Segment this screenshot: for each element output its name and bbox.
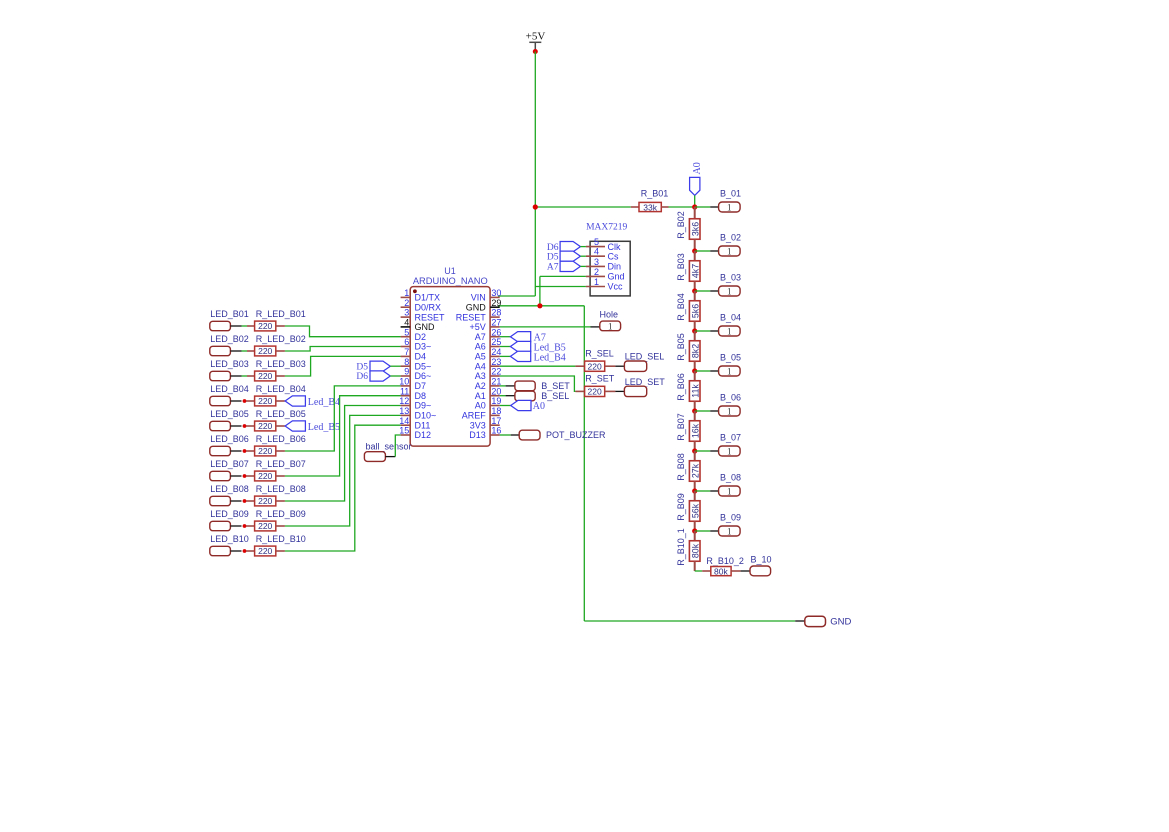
connector LED_B10 — [210, 546, 231, 555]
lead left R_LED_B06 — [246, 450, 255, 452]
svg-text:27k: 27k — [690, 463, 700, 478]
svg-text:13: 13 — [399, 406, 409, 416]
svg-text:R_B06: R_B06 — [676, 373, 686, 401]
svg-text:LED_B10: LED_B10 — [210, 534, 249, 544]
svg-text:D13: D13 — [469, 430, 486, 440]
pin 16 D13 of U1 — [469, 426, 501, 441]
svg-text:LED_B02: LED_B02 — [210, 334, 249, 344]
resistor R_LED_B10 220 — [255, 546, 276, 556]
pin 15 D12 of U1 — [399, 426, 431, 441]
pin 21 A2 of U1 — [475, 377, 502, 392]
lead bottom R_B10_1 — [694, 561, 696, 571]
wire LED_B07 to pin 11 — [285, 396, 401, 476]
svg-text:220: 220 — [258, 446, 272, 456]
lead left R_LED_B08 — [246, 500, 255, 502]
pin stub LED_B09 — [230, 525, 241, 527]
svg-text:R_SEL: R_SEL — [585, 349, 614, 359]
svg-text:220: 220 — [588, 387, 602, 397]
net label D5 flag (chip side) — [370, 361, 390, 371]
pin stub B_SEL — [506, 395, 515, 397]
svg-text:R_LED_B03: R_LED_B03 — [256, 359, 306, 369]
wire +5V to MAX Vcc — [535, 286, 586, 288]
resistor R_B08 27k — [689, 461, 700, 482]
wire LED_B02 to R_LED_B02 — [242, 350, 248, 352]
svg-text:Vcc: Vcc — [608, 282, 624, 292]
lead right R_LED_B10 — [276, 550, 285, 552]
pin 3 Din of MAX7219 — [586, 257, 621, 272]
svg-text:RESET: RESET — [415, 312, 446, 322]
svg-text:220: 220 — [258, 371, 272, 381]
svg-text:B_07: B_07 — [720, 432, 741, 442]
svg-text:1: 1 — [727, 487, 732, 497]
svg-text:B_05: B_05 — [720, 352, 741, 362]
wire pin to Led_B4 flag — [500, 355, 511, 357]
lead left R_LED_B10 — [246, 550, 255, 552]
pin 22 A3 of U1 — [475, 367, 502, 382]
svg-text:D2: D2 — [415, 332, 427, 342]
net label A7 (to MAX7219) — [560, 261, 580, 271]
svg-text:D9~: D9~ — [415, 401, 432, 411]
svg-text:4: 4 — [404, 318, 409, 328]
pin 8 D5~ of U1 — [401, 357, 432, 372]
svg-text:D0/RX: D0/RX — [415, 302, 442, 312]
svg-text:A6: A6 — [475, 342, 486, 352]
lead top R_B10_1 — [694, 531, 696, 541]
wire node to B_08 — [695, 490, 711, 492]
resistor R_B06 11k — [689, 381, 700, 402]
connector LED_SEL — [624, 361, 646, 371]
svg-text:220: 220 — [588, 361, 602, 371]
svg-text:1: 1 — [727, 407, 732, 417]
lead right R_SET — [605, 390, 616, 392]
connector B_08 — [719, 486, 741, 497]
svg-text:B_SEL: B_SEL — [541, 391, 569, 401]
svg-text:R_B04: R_B04 — [676, 293, 686, 321]
pin 4 Cs of MAX7219 — [586, 247, 619, 262]
resistor R_LED_B06 220 — [255, 446, 276, 456]
svg-text:D5~: D5~ — [415, 361, 432, 371]
svg-text:3k6: 3k6 — [690, 222, 700, 236]
lead left R_LED_B09 — [246, 525, 255, 527]
svg-text:24: 24 — [491, 347, 501, 357]
svg-text:R_LED_B09: R_LED_B09 — [256, 509, 306, 519]
svg-text:A4: A4 — [475, 361, 486, 371]
junction row LED_B08 — [243, 499, 247, 503]
svg-text:14: 14 — [399, 416, 409, 426]
wire node to B_04 — [695, 330, 711, 332]
wire D6 flag to pin 9 — [390, 375, 400, 377]
pin stub B_02 — [710, 250, 718, 252]
svg-text:220: 220 — [258, 346, 272, 356]
net label Led_B4 flag (right) — [510, 351, 530, 361]
net label A0 flag (right) — [511, 400, 531, 410]
pin stub LED_B05 — [230, 425, 241, 427]
wire LED_B06 to pin 10 — [285, 386, 401, 451]
svg-text:19: 19 — [491, 396, 501, 406]
svg-text:15: 15 — [399, 426, 409, 436]
svg-text:MAX7219: MAX7219 — [586, 223, 627, 233]
junction node B08 — [692, 488, 697, 493]
pin 17 3V3 of U1 — [470, 416, 502, 431]
lead top R_B04 — [694, 291, 696, 301]
pin 2 D0/RX of U1 — [401, 298, 441, 313]
svg-text:LED_SEL: LED_SEL — [625, 352, 665, 362]
lead right R_B10_2 — [731, 570, 741, 572]
pin 10 D7 of U1 — [399, 377, 426, 392]
pin 23 A4 of U1 — [475, 357, 502, 372]
wire node to B_07 — [695, 450, 711, 452]
svg-text:D1/TX: D1/TX — [415, 293, 441, 303]
svg-text:1: 1 — [727, 367, 732, 377]
resistor R_LED_B02 220 — [255, 346, 276, 356]
connector LED_SET — [624, 386, 646, 396]
svg-text:VIN: VIN — [471, 293, 486, 303]
connector B_06 — [719, 406, 741, 417]
pin stub LED_B03 — [230, 375, 241, 377]
lead left R_B10_2 — [702, 570, 711, 572]
svg-text:R_LED_B10: R_LED_B10 — [256, 534, 306, 544]
svg-text:R_B08: R_B08 — [676, 453, 686, 481]
wire GND vertical — [583, 306, 585, 621]
svg-text:R_LED_B08: R_LED_B08 — [256, 484, 306, 494]
connector GND — [805, 616, 826, 626]
svg-text:5: 5 — [594, 237, 599, 247]
lead top R_B03 — [694, 251, 696, 261]
resistor R_LED_B01 220 — [255, 321, 276, 331]
wire A0 flag to node B01 — [694, 195, 696, 207]
resistor R_LED_B09 220 — [255, 521, 276, 531]
wire ball_sensor to pin 15 — [395, 435, 400, 457]
lead left R_LED_B03 — [247, 375, 255, 377]
pin stub B_04 — [710, 330, 718, 332]
pin 1 D1/TX of U1 — [401, 288, 440, 303]
resistor R_B02 3k6 — [689, 219, 700, 240]
pin stub LED_B06 — [230, 450, 241, 452]
pin stub LED_B04 — [230, 400, 241, 402]
lead right R_LED_B09 — [276, 525, 285, 527]
pin 4 GND of U1 — [401, 318, 435, 333]
svg-text:18: 18 — [491, 406, 501, 416]
svg-text:5: 5 — [404, 327, 409, 337]
lead bottom R_B09 — [694, 521, 696, 531]
lead right R_LED_B07 — [276, 475, 285, 477]
lead top R_B06 — [694, 371, 696, 381]
wire GND to MAX Gnd pin — [540, 275, 586, 277]
svg-text:28: 28 — [491, 308, 501, 318]
wire LED_B01 to pin 5 — [285, 326, 401, 337]
svg-text:8: 8 — [404, 357, 409, 367]
wire +5V to VIN — [498, 295, 535, 297]
svg-text:1: 1 — [727, 527, 732, 537]
svg-text:220: 220 — [258, 396, 272, 406]
junction node B04 — [692, 328, 697, 333]
connector POT_BUZZER — [519, 430, 540, 440]
junction row LED_B07 — [243, 474, 247, 478]
lead bottom R_B08 — [694, 481, 696, 491]
connector LED_B07 — [210, 471, 231, 480]
pin 11 D8 of U1 — [400, 386, 426, 401]
lead right R_LED_B01 — [276, 325, 285, 327]
resistor R_B03 4k7 — [689, 261, 700, 282]
connector LED_B06 — [210, 446, 231, 455]
svg-text:A0: A0 — [533, 401, 545, 412]
junction node B06 — [692, 408, 697, 413]
lead right R_LED_B04 — [276, 400, 285, 402]
svg-text:D3~: D3~ — [415, 342, 432, 352]
svg-text:LED_B08: LED_B08 — [210, 484, 249, 494]
pin stub GND — [795, 620, 805, 622]
svg-text:1: 1 — [727, 287, 732, 297]
svg-text:16: 16 — [491, 426, 501, 436]
svg-text:LED_B09: LED_B09 — [210, 509, 249, 519]
wire +5V vertical — [534, 52, 536, 297]
resistor R_SEL 220 — [585, 361, 605, 371]
junction node B09 — [692, 528, 697, 533]
junction at +5V — [533, 49, 538, 54]
svg-text:1: 1 — [727, 327, 732, 337]
pin stub ball_sensor — [385, 456, 395, 458]
resistor R_B07 16k — [689, 421, 700, 442]
svg-text:LED_B05: LED_B05 — [210, 409, 249, 419]
lead top R_B02 — [694, 207, 696, 219]
lead top R_B05 — [694, 331, 696, 341]
svg-text:R_B10_2: R_B10_2 — [706, 556, 744, 566]
svg-text:D10~: D10~ — [415, 411, 437, 421]
pin stub B_03 — [710, 290, 718, 292]
connector B_05 — [719, 366, 741, 377]
svg-text:Led_B4: Led_B4 — [534, 352, 566, 363]
svg-text:R_B09: R_B09 — [676, 493, 686, 521]
svg-text:Led_B5: Led_B5 — [308, 422, 340, 433]
svg-text:220: 220 — [258, 421, 272, 431]
pin stub POT_BUZZER — [511, 434, 520, 436]
wire node to B_01 — [695, 206, 711, 208]
wire node to B_09 — [695, 530, 711, 532]
wire LED_B03 to pin 7 — [285, 356, 401, 376]
pin 1 Vcc of MAX7219 — [586, 277, 623, 292]
svg-text:23: 23 — [491, 357, 501, 367]
wire LED_B09 to pin 13 — [285, 415, 401, 526]
pin 12 D9~ of U1 — [399, 396, 431, 411]
junction row LED_B04 — [243, 399, 247, 403]
svg-text:LED_B06: LED_B06 — [210, 434, 249, 444]
svg-text:80k: 80k — [690, 543, 700, 558]
svg-text:ball_sensor: ball_sensor — [366, 441, 412, 451]
resistor R_B09 56k — [689, 501, 700, 522]
svg-text:Hole: Hole — [600, 309, 619, 319]
pin stub B_06 — [710, 410, 718, 412]
svg-text:8k2: 8k2 — [690, 344, 700, 358]
svg-text:LED_B07: LED_B07 — [210, 459, 249, 469]
svg-text:LED_B03: LED_B03 — [210, 359, 249, 369]
connector LED_B08 — [210, 496, 231, 505]
lead left R_SET — [575, 390, 584, 392]
pin stub LED_B01 — [230, 325, 241, 327]
svg-text:R_B07: R_B07 — [676, 413, 686, 441]
pin stub LED_SET — [615, 390, 624, 392]
connector LED_B01 — [210, 321, 231, 330]
pin stub B_SET — [506, 385, 515, 387]
svg-text:2: 2 — [404, 298, 409, 308]
svg-text:A1: A1 — [475, 391, 486, 401]
connector B_01 — [719, 202, 741, 213]
connector LED_B05 — [210, 421, 231, 430]
lead left R_SEL — [575, 365, 584, 367]
wire pin22 to R_SET — [500, 376, 576, 391]
lead left R_LED_B02 — [247, 350, 255, 352]
lead left R_LED_B01 — [247, 325, 255, 327]
connector B_SEL — [515, 391, 535, 401]
lead left R_LED_B04 — [246, 400, 255, 402]
svg-text:R_LED_B06: R_LED_B06 — [256, 434, 306, 444]
lead bottom R_B07 — [694, 441, 696, 451]
svg-text:R_LED_B07: R_LED_B07 — [256, 459, 306, 469]
junction +5V / R_B01 — [533, 204, 538, 209]
svg-text:D4: D4 — [415, 352, 427, 362]
pin stub LED_SEL — [615, 365, 624, 367]
pin stub LED_B02 — [230, 350, 241, 352]
lead left R_B01 — [631, 206, 639, 208]
pin 5 D2 of U1 — [401, 327, 426, 342]
wire GND bottom horizontal — [584, 620, 795, 622]
svg-text:B_08: B_08 — [720, 472, 741, 482]
svg-text:1: 1 — [594, 277, 599, 287]
svg-text:16k: 16k — [690, 423, 700, 438]
svg-text:Cs: Cs — [608, 251, 619, 261]
resistor R_B10_1 80k — [689, 541, 700, 562]
net label Led_B5 flag (right) — [510, 341, 530, 351]
svg-text:A0: A0 — [475, 401, 486, 411]
wire LED_B02 to pin 6 — [285, 347, 401, 352]
svg-text:B_02: B_02 — [720, 232, 741, 242]
svg-text:B_01: B_01 — [720, 188, 741, 198]
resistor R_B04 5k6 — [689, 301, 700, 322]
junction node B07 — [692, 448, 697, 453]
svg-text:POT_BUZZER: POT_BUZZER — [546, 430, 606, 440]
junction node B03 — [692, 288, 697, 293]
svg-text:R_SET: R_SET — [585, 374, 615, 384]
connector B_04 — [719, 326, 741, 337]
lead top R_B09 — [694, 491, 696, 501]
junction row LED_B05 — [243, 424, 247, 428]
net label A7 flag (right) — [510, 332, 530, 342]
svg-text:26: 26 — [491, 327, 501, 337]
svg-text:220: 220 — [258, 321, 272, 331]
svg-text:A7: A7 — [475, 332, 486, 342]
resistor R_LED_B03 220 — [255, 371, 276, 381]
pin 20 A1 of U1 — [475, 386, 502, 401]
svg-text:1: 1 — [727, 447, 732, 457]
junction node B02 — [692, 248, 697, 253]
svg-text:B_03: B_03 — [720, 272, 741, 282]
svg-text:A7: A7 — [547, 263, 559, 273]
svg-text:B_10: B_10 — [751, 554, 772, 564]
svg-text:B_06: B_06 — [720, 392, 741, 402]
lead top R_B07 — [694, 411, 696, 421]
svg-text:21: 21 — [491, 377, 501, 387]
pin 26 A7 of U1 — [475, 327, 502, 342]
wire pin to A7 flag — [500, 336, 511, 338]
wire pin21 to B_SET — [500, 385, 506, 387]
junction row LED_B10 — [243, 549, 247, 553]
pin 7 D4 of U1 — [401, 347, 426, 362]
svg-text:9: 9 — [404, 367, 409, 377]
svg-text:1: 1 — [727, 203, 732, 213]
pin stub LED_B07 — [230, 475, 241, 477]
svg-text:1: 1 — [404, 288, 409, 298]
pin 5 Clk of MAX7219 — [586, 237, 621, 252]
wire pin23 to R_SEL — [500, 365, 576, 367]
lead right R_LED_B06 — [276, 450, 285, 452]
net label D5 (to MAX7219) — [560, 251, 580, 261]
svg-text:D8: D8 — [415, 391, 427, 401]
svg-text:1: 1 — [608, 321, 613, 331]
pin 29 GND of U1 — [466, 298, 502, 313]
svg-text:29: 29 — [491, 298, 501, 308]
svg-text:3: 3 — [404, 308, 409, 318]
svg-text:80k: 80k — [714, 566, 728, 576]
svg-text:LED_B04: LED_B04 — [210, 384, 249, 394]
svg-text:11k: 11k — [690, 384, 700, 398]
net label D6 (to MAX7219) — [560, 242, 580, 252]
svg-text:220: 220 — [258, 471, 272, 481]
svg-text:R_LED_B02: R_LED_B02 — [256, 334, 306, 344]
pin stub B_08 — [710, 490, 718, 492]
lead bottom R_B05 — [694, 361, 696, 371]
wire D5 flag to pin 8 — [390, 365, 400, 367]
lead right R_LED_B02 — [276, 350, 285, 352]
svg-text:B_04: B_04 — [720, 312, 741, 322]
svg-text:220: 220 — [258, 521, 272, 531]
lead right R_LED_B05 — [276, 425, 285, 427]
IC MAX7219 — [586, 223, 630, 296]
wire chain bottom corner — [695, 570, 703, 572]
svg-text:A5: A5 — [475, 352, 486, 362]
lead right R_LED_B08 — [276, 500, 285, 502]
svg-text:22: 22 — [491, 367, 501, 377]
pin stub LED_B08 — [230, 500, 241, 502]
svg-text:R_B02: R_B02 — [676, 211, 686, 239]
resistor R_LED_B07 220 — [255, 471, 276, 481]
resistor R_LED_B04 220 — [255, 396, 276, 406]
pin stub B_05 — [710, 370, 718, 372]
svg-text:30: 30 — [491, 288, 501, 298]
svg-text:B_SET: B_SET — [541, 381, 570, 391]
lead bottom R_B03 — [694, 281, 696, 291]
svg-text:D11: D11 — [415, 420, 431, 430]
wire LED_B03 to R_LED_B03 — [242, 375, 248, 377]
lead right R_B01 — [661, 206, 668, 208]
svg-text:4k7: 4k7 — [690, 264, 700, 278]
resistor R_SET 220 — [585, 386, 605, 396]
svg-text:D5: D5 — [547, 252, 559, 262]
svg-text:20: 20 — [491, 386, 501, 396]
svg-text:11: 11 — [400, 386, 409, 396]
lead right R_SEL — [605, 365, 616, 367]
connector B_07 — [719, 446, 741, 457]
pin 27 +5V of U1 — [470, 318, 502, 333]
pin stub Hole — [591, 326, 600, 328]
resistor R_LED_B05 220 — [255, 421, 276, 431]
svg-text:3: 3 — [594, 257, 599, 267]
svg-text:D6: D6 — [547, 243, 559, 253]
pin 2 Gnd of MAX7219 — [586, 267, 625, 282]
pin 18 AREF of U1 — [462, 406, 502, 421]
wire node to B_05 — [695, 370, 711, 372]
resistor R_LED_B08 220 — [255, 496, 276, 506]
svg-text:+5V: +5V — [470, 322, 486, 332]
svg-text:U1: U1 — [444, 266, 456, 276]
